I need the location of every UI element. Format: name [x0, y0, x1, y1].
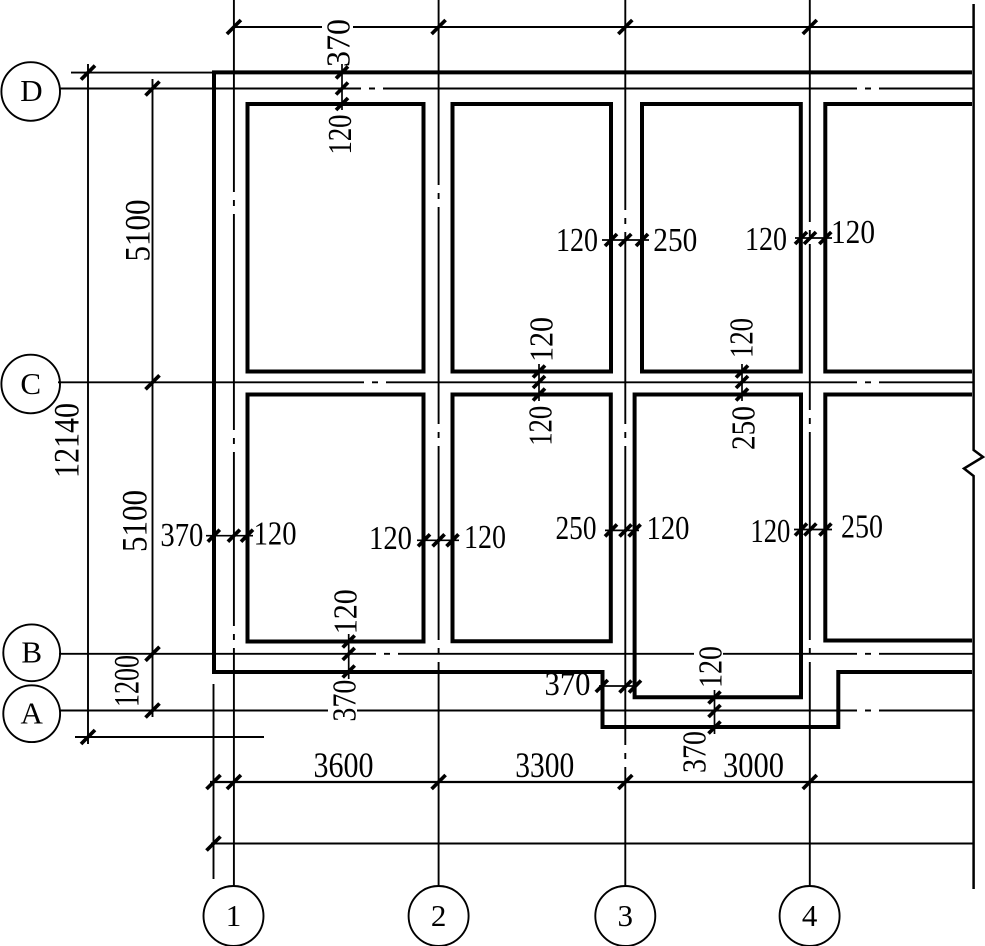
connector left wall label row	[206, 535, 253, 537]
svg-text:120: 120	[254, 516, 297, 553]
mask under B wall 370 label	[328, 679, 357, 724]
connector notch bottom wall label	[714, 690, 716, 734]
axis C line	[58, 381, 973, 383]
svg-text:370: 370	[321, 19, 358, 67]
BREAK LINE (right edge)	[964, 4, 983, 889]
svg-text:370: 370	[545, 666, 591, 703]
connector B wall label	[348, 634, 350, 680]
tick lower line left end	[207, 837, 221, 851]
svg-text:1: 1	[226, 898, 242, 933]
BOTTOM DIMENSION TEXTS	[314, 745, 785, 785]
grid line 4	[809, 0, 811, 886]
svg-text:120: 120	[322, 115, 359, 155]
ticks grid4 row1 label	[795, 232, 807, 244]
axis B line	[59, 653, 973, 655]
top dimension line	[234, 26, 973, 28]
THICK WALL LINES	[212, 71, 972, 728]
extension line below left wall	[213, 684, 215, 879]
WALL LABEL TEXTS ROTATED	[321, 19, 763, 773]
circle B	[3, 624, 60, 681]
svg-text:12140: 12140	[47, 403, 87, 478]
connector grid4 row2 label	[794, 529, 832, 531]
TICK MARKS	[81, 20, 831, 851]
svg-text:120: 120	[523, 406, 560, 446]
svg-text:5100: 5100	[115, 490, 155, 552]
circle A	[3, 685, 60, 742]
connector C wall label room3	[741, 364, 743, 401]
room 3 row 2 inner faces (extends into notch)	[635, 395, 801, 698]
tick overall dim bottom	[81, 730, 95, 744]
ticks left wall label row	[208, 530, 220, 542]
ticks C wall label room3	[736, 366, 748, 378]
circle C	[1, 355, 60, 414]
room 4 row 2 inner faces	[825, 395, 972, 641]
room 1 row 2 inner faces	[248, 395, 424, 642]
LEFT ROTATED DIMENSION TEXTS	[47, 200, 158, 708]
LABEL CONNECTOR LINES	[206, 64, 832, 734]
connector top wall label	[341, 64, 343, 110]
ticks bottom dimension line	[207, 775, 221, 789]
svg-text:D: D	[20, 73, 42, 108]
connector grid3 row1 label	[602, 239, 649, 241]
ticks notch 370 label	[596, 680, 608, 692]
svg-text:5100: 5100	[118, 200, 158, 262]
svg-text:120: 120	[724, 318, 761, 358]
grid line 3	[624, 0, 626, 886]
svg-text:2: 2	[431, 898, 447, 933]
svg-text:370: 370	[327, 680, 364, 722]
connector grid2 row2 label	[417, 539, 459, 541]
exterior wall bottom outer edge with notch	[212, 672, 972, 727]
connector C wall label room2	[538, 364, 540, 401]
svg-text:1200: 1200	[107, 655, 147, 707]
tick bay dim at C	[146, 375, 160, 389]
svg-text:120: 120	[750, 513, 790, 550]
svg-text:120: 120	[831, 214, 875, 251]
lower horizontal line	[211, 843, 973, 845]
ticks on top dimension line	[227, 20, 241, 34]
left bay dimension line (5100/5100/1200)	[152, 79, 154, 717]
svg-text:3: 3	[618, 898, 634, 933]
svg-text:120: 120	[745, 221, 787, 258]
svg-text:370: 370	[160, 517, 203, 554]
svg-text:3300: 3300	[515, 745, 574, 785]
ticks grid3 row2 label	[605, 524, 617, 536]
svg-text:370: 370	[677, 731, 714, 773]
svg-text:250: 250	[653, 222, 697, 259]
svg-text:250: 250	[556, 510, 597, 547]
circle 2	[409, 886, 469, 946]
ticks C wall label room2	[533, 366, 545, 378]
connector grid4 row1 label	[795, 237, 832, 239]
tick overall dim top	[81, 66, 95, 80]
svg-text:120: 120	[369, 520, 412, 557]
text masks (white halo where text interrupts lines)	[322, 16, 357, 724]
connector grid3 row2 label	[605, 529, 639, 531]
grid line 1	[233, 0, 235, 886]
exterior wall top outer edge	[212, 70, 972, 74]
AXIS LETTERS	[20, 73, 818, 933]
room 3 row 1 inner faces	[642, 104, 801, 372]
svg-text:A: A	[21, 696, 44, 731]
circle 1	[204, 886, 264, 946]
svg-text:B: B	[21, 635, 42, 670]
axis A line	[59, 710, 973, 712]
ticks grid4 row2 label	[795, 524, 807, 536]
left overall dimension line (12140)	[87, 64, 89, 744]
tick bay dim at A	[146, 704, 160, 718]
ticks grid2 row2 label	[418, 534, 430, 546]
ticks B wall label	[343, 636, 355, 648]
svg-text:120: 120	[464, 519, 506, 556]
room 1 row 1 inner faces	[248, 104, 424, 372]
grid line 2	[438, 0, 440, 886]
room 2 row 1 inner faces	[453, 104, 612, 372]
svg-text:3000: 3000	[723, 745, 784, 785]
ticks notch bottom wall label	[709, 692, 721, 704]
exterior wall left outer edge	[212, 71, 216, 673]
room 4 row 1 inner faces	[825, 104, 972, 372]
ticks top wall label	[336, 66, 348, 78]
svg-text:250: 250	[726, 406, 763, 450]
ticks grid3 row1 label	[605, 234, 617, 246]
tick bay dim at B	[146, 647, 160, 661]
circle D	[1, 62, 60, 121]
connector notch 370 label	[599, 685, 637, 687]
circle 4	[780, 886, 840, 946]
extension line top-left (outer wall face level)	[71, 72, 212, 74]
bottom dimension line (3600/3300/3000)	[210, 781, 973, 783]
axis D line	[60, 88, 973, 90]
svg-text:120: 120	[647, 510, 690, 547]
tick bay dim at D	[146, 82, 160, 96]
svg-text:120: 120	[524, 317, 561, 362]
svg-text:C: C	[20, 366, 41, 401]
bottom extension line of overall dimension	[75, 736, 264, 738]
WALL LABEL TEXTS HORIZONTAL	[160, 214, 883, 703]
svg-text:4: 4	[802, 898, 818, 933]
circle 3	[595, 886, 655, 946]
svg-text:250: 250	[841, 509, 883, 546]
svg-text:120: 120	[328, 589, 365, 634]
svg-text:120: 120	[556, 222, 598, 259]
svg-text:120: 120	[693, 646, 730, 688]
room 2 row 2 inner faces	[453, 395, 611, 642]
AXIS CIRCLES LEFT	[1, 62, 839, 946]
mask under top 370 label	[322, 16, 353, 63]
svg-text:3600: 3600	[314, 745, 374, 785]
